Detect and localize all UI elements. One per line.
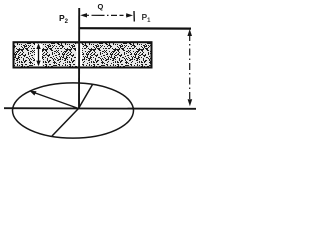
- Q dimension line (dash-dot, arrows both ends): [80, 13, 133, 18]
- bar thickness double arrow: [36, 43, 40, 66]
- radius arrow to upper-left: [29, 91, 78, 109]
- radius line to lower-left: [52, 109, 79, 137]
- svg-text:Q: Q: [98, 2, 104, 11]
- right vertical dimension line (dash-dot, arrows both ends): [187, 29, 192, 106]
- top horizontal line: [79, 27, 192, 30]
- white clearance under thickness arrow: [35, 44, 42, 67]
- bar (stippled beam): [14, 42, 152, 67]
- ellipse (disc): [13, 83, 134, 138]
- radius line to upper-right: [79, 85, 93, 109]
- white clearance under axis in bar: [76, 44, 82, 67]
- horizontal diameter line: [4, 107, 196, 110]
- Q right tick: [133, 11, 135, 22]
- central vertical axis line: [78, 8, 80, 109]
